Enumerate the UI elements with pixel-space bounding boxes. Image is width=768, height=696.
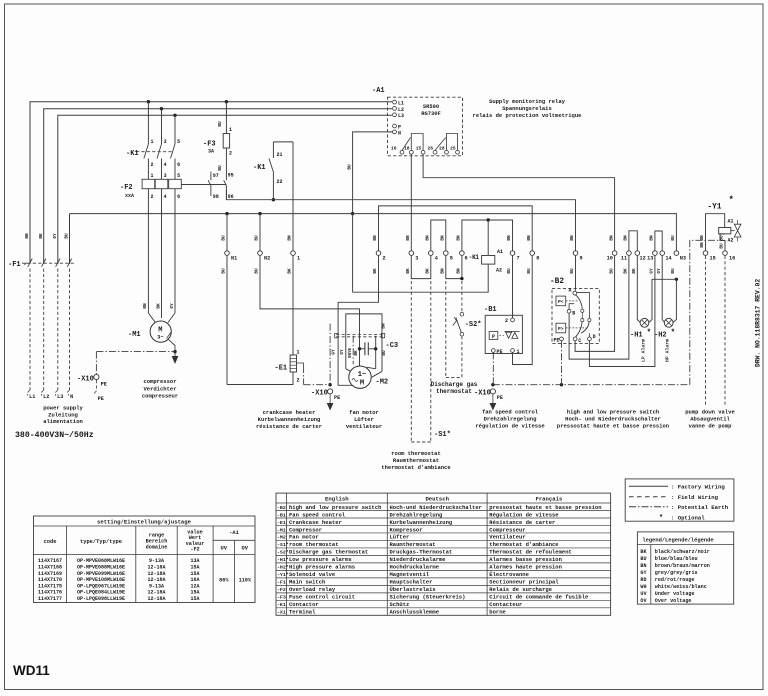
svg-text:3: 3 — [164, 173, 167, 179]
svg-text:compresseur: compresseur — [142, 393, 178, 400]
svg-text:2: 2 — [297, 378, 300, 384]
svg-text:N: N — [398, 130, 401, 136]
field wiring below F1 to supply terminals — [29, 269, 31, 391]
node M2 PE — [328, 383, 331, 386]
B2 terminal PE — [560, 337, 564, 341]
svg-text:Drehzahlregelung: Drehzahlregelung — [484, 416, 537, 423]
svg-text:BN: BN — [457, 235, 462, 241]
svg-text:OP-LPQE098LLW19E: OP-LPQE098LLW19E — [77, 596, 125, 602]
svg-text:thermostat d'ambiance: thermostat d'ambiance — [381, 464, 451, 471]
svg-text:110%: 110% — [239, 578, 252, 584]
svg-text:15A: 15A — [190, 596, 199, 602]
wire terminal1 riser to K1-21 — [292, 142, 294, 251]
terminal X1-10 — [612, 251, 617, 256]
svg-text:BN: BN — [25, 233, 30, 239]
svg-text:-X10: -X10 — [474, 390, 491, 398]
svg-text:PE: PE — [334, 395, 340, 401]
svg-text:Hochdruckalarme: Hochdruckalarme — [390, 564, 440, 571]
A1 input N — [393, 130, 397, 134]
node B2 PE — [560, 383, 563, 386]
terminal X1-16 — [723, 251, 728, 256]
svg-text:BU: BU — [671, 268, 676, 274]
svg-text:-F2: -F2 — [120, 184, 133, 192]
svg-text:thermostat: thermostat — [436, 388, 472, 395]
B2 internal contacts — [575, 295, 582, 309]
B1 pressure sensor box — [489, 331, 498, 339]
wire A1-18 to terminal 3 — [410, 154, 412, 250]
node A1-N neutral bus — [351, 212, 354, 215]
jumper bridge terminals 11-12 — [629, 231, 637, 251]
svg-text:-F2: -F2 — [277, 587, 286, 593]
HP alarm lamp H2 — [664, 318, 673, 327]
svg-text:114X7177: 114X7177 — [38, 596, 62, 602]
svg-text:black/schwarz/noir: black/schwarz/noir — [655, 549, 710, 555]
svg-text:BN: BN — [700, 235, 705, 241]
svg-text:98: 98 — [213, 194, 219, 200]
wire E1 PE stub — [297, 363, 304, 366]
svg-text:BK: BK — [288, 268, 293, 274]
svg-text:BU: BU — [218, 121, 223, 127]
svg-text:Français: Français — [535, 496, 562, 503]
svg-text:GY: GY — [53, 233, 58, 239]
svg-text:1: 1 — [151, 173, 154, 179]
wire N drop to F1 — [69, 214, 71, 264]
svg-text:'L1: 'L1 — [26, 394, 35, 400]
jumper bridge terminals 13-14 — [655, 231, 662, 251]
svg-text:BU: BU — [609, 268, 614, 274]
svg-text:BU: BU — [527, 268, 532, 274]
fan motor auxiliary winding loop — [346, 314, 382, 372]
svg-text:BN: BN — [570, 235, 575, 241]
svg-text:Under voltage: Under voltage — [655, 591, 695, 597]
terminal X1-8 — [530, 251, 535, 256]
capacitor C3 lead wire — [375, 336, 377, 369]
svg-text:PE: PE — [497, 395, 503, 401]
svg-text:12-18A: 12-18A — [147, 596, 165, 602]
wire link terminal 2 to terminal 8 — [379, 206, 533, 251]
svg-text:Magnetventil: Magnetventil — [390, 571, 430, 578]
node M1 PE — [173, 350, 176, 353]
pressure switch B2 box — [552, 289, 599, 344]
terminal X1-11 — [627, 251, 632, 256]
svg-text:BU: BU — [507, 268, 512, 274]
svg-text:-M1: -M1 — [277, 527, 286, 533]
svg-text:5: 5 — [177, 173, 180, 179]
svg-text:BN: BN — [441, 268, 446, 274]
svg-text:16A: 16A — [190, 577, 199, 583]
svg-text:BN: BN — [373, 235, 378, 241]
svg-text:Deutsch: Deutsch — [425, 496, 449, 503]
svg-text:-M1: -M1 — [128, 331, 141, 339]
svg-text:code: code — [44, 539, 57, 545]
fan speed control B1 box — [485, 315, 522, 353]
svg-text:high and low pressure switch: high and low pressure switch — [289, 504, 381, 511]
node neutral N2 — [258, 212, 261, 215]
wire F2 aux link — [181, 184, 226, 186]
svg-text:-A1: -A1 — [372, 87, 385, 95]
svg-text:114X7167: 114X7167 — [38, 558, 62, 564]
terminal X10 PE fan — [328, 389, 333, 394]
node S2 field tap — [460, 277, 463, 280]
svg-text:'N: 'N — [67, 394, 73, 400]
svg-text:-K1: -K1 — [126, 150, 139, 158]
svg-text:Fan speed control: Fan speed control — [289, 511, 346, 518]
svg-text:*: * — [671, 329, 676, 338]
svg-text:UV: UV — [221, 546, 228, 552]
svg-text:BN: BN — [143, 303, 148, 309]
svg-text:white/weiss/blanc: white/weiss/blanc — [655, 584, 707, 590]
svg-text:-S2*: -S2* — [277, 550, 289, 556]
svg-text:114X7176: 114X7176 — [38, 590, 62, 596]
terminal X1-14 — [660, 251, 665, 256]
svg-text:15A: 15A — [190, 564, 199, 570]
wire B2-D to terminal 13 (HP) — [589, 256, 655, 367]
svg-text:12-18A: 12-18A — [147, 577, 165, 583]
potential earth bus left — [96, 351, 175, 353]
terminal X1-6 — [460, 251, 465, 256]
svg-text:9: 9 — [580, 256, 583, 262]
svg-text:-M2: -M2 — [376, 379, 389, 387]
svg-text:-K1: -K1 — [469, 254, 480, 261]
svg-text:11: 11 — [621, 256, 627, 262]
terminal X1-15 — [703, 251, 708, 256]
terminal X1-13 — [653, 251, 658, 256]
svg-text:BU: BU — [65, 233, 70, 239]
svg-text:Raumthermostat: Raumthermostat — [390, 541, 436, 548]
jumper terminals 5-6 — [446, 256, 462, 279]
thermostat contact S2 — [460, 312, 464, 316]
B2 high pressure sensor P> — [556, 323, 566, 333]
capacitor C3 — [360, 348, 365, 350]
svg-text:A: A — [568, 288, 571, 294]
svg-text:-F3: -F3 — [203, 141, 216, 149]
svg-text:Kurbelwannenheizung: Kurbelwannenheizung — [390, 519, 453, 526]
node bus L2 / K1 tap — [160, 107, 163, 110]
svg-text:OP-LPQE084LLW19E: OP-LPQE084LLW19E — [77, 590, 125, 596]
wire terminal 14 to lamp H2 — [662, 256, 665, 323]
svg-text:Druckgas-Thermostat: Druckgas-Thermostat — [390, 549, 453, 556]
node K1 coil tap — [487, 218, 490, 221]
terminal X1-5 — [444, 251, 449, 256]
svg-text:BK: BK — [632, 268, 637, 274]
svg-text:-F2: -F2 — [190, 547, 199, 553]
field wiring below 15/16 — [705, 256, 707, 407]
svg-text:BN: BN — [457, 268, 462, 274]
svg-text:WD11: WD11 — [13, 663, 50, 678]
svg-text:GY: GY — [332, 349, 337, 355]
svg-text:A1: A1 — [497, 249, 503, 255]
svg-text:M: M — [158, 327, 162, 335]
node bus L3 / K1 tap — [173, 114, 176, 117]
setting table — [34, 516, 256, 603]
svg-text:Kurbelwannenheizung: Kurbelwannenheizung — [258, 416, 321, 423]
svg-text:room thermostat: room thermostat — [391, 450, 441, 457]
svg-text:-B2: -B2 — [277, 505, 286, 511]
svg-text:25: 25 — [450, 146, 456, 152]
svg-text:BN: BN — [426, 235, 431, 241]
svg-text:Sicherung (Steuerkreis): Sicherung (Steuerkreis) — [390, 594, 466, 601]
wire E1 return to N1 — [227, 372, 293, 385]
potential earth to Y1 — [690, 240, 720, 384]
solenoid valve coil Y1 — [719, 228, 731, 234]
wire B1-1 to terminal 8 — [513, 256, 533, 365]
svg-text:Drehzahlregelung: Drehzahlregelung — [390, 511, 443, 518]
svg-text:Over voltage: Over voltage — [655, 598, 692, 604]
A1 input P — [393, 124, 397, 128]
svg-text:9-13A: 9-13A — [149, 558, 164, 564]
svg-text:BK: BK — [426, 268, 431, 274]
svg-text:Discharge gas thermostat: Discharge gas thermostat — [289, 549, 368, 556]
svg-text:Solenoid valve: Solenoid valve — [289, 571, 336, 578]
svg-text:High pressure alarms: High pressure alarms — [289, 564, 355, 571]
svg-text:Électrovanne: Électrovanne — [489, 571, 529, 578]
wire neutral BU drop to K1 coil return — [352, 214, 354, 293]
wire A1-N to neutral bus — [353, 132, 393, 214]
svg-text:brown/braun/marron: brown/braun/marron — [655, 563, 710, 569]
terminal X1-3 — [409, 251, 414, 256]
svg-text:4: 4 — [164, 194, 167, 200]
svg-text:room thermostat: room thermostat — [289, 541, 339, 548]
svg-text:2: 2 — [151, 194, 154, 200]
contact F2 97/98 — [210, 172, 212, 181]
terminal X1-N2 — [258, 251, 263, 256]
svg-text:fan speed control: fan speed control — [482, 409, 539, 416]
svg-text:OP-MPVE068MLW16E: OP-MPVE068MLW16E — [77, 558, 125, 564]
svg-text:'L3: 'L3 — [54, 394, 63, 400]
svg-text:Spannungsrelais: Spannungsrelais — [502, 105, 552, 112]
svg-text:OP-MPVE088MLW16E: OP-MPVE088MLW16E — [77, 564, 125, 570]
svg-text:BN: BN — [441, 235, 446, 241]
svg-text:-S1*: -S1* — [434, 431, 451, 439]
svg-text:BN: BN — [609, 235, 614, 241]
svg-text:L2: L2 — [398, 107, 404, 113]
node K1-22 on 96 line — [272, 198, 275, 201]
room thermostat S1 field wiring — [410, 281, 412, 442]
svg-text:-E1: -E1 — [277, 520, 286, 526]
wire terminal 15 riser — [706, 214, 725, 251]
svg-text:OP-MPVE108MLW16E: OP-MPVE108MLW16E — [77, 577, 125, 583]
wire terminal 12 to lamp H1 — [637, 256, 640, 323]
svg-text:Régulation de vitesse: Régulation de vitesse — [489, 511, 559, 518]
svg-text:compressor: compressor — [143, 378, 176, 385]
svg-text:9-13A: 9-13A — [149, 583, 164, 589]
svg-text:: Optional: : Optional — [671, 514, 705, 521]
svg-text:5: 5 — [177, 139, 180, 145]
svg-text:15: 15 — [710, 256, 716, 262]
svg-text:Terminal: Terminal — [289, 609, 316, 616]
svg-text:Anschlussklemme: Anschlussklemme — [390, 609, 440, 616]
svg-text:14: 14 — [665, 256, 671, 262]
svg-text:BN: BN — [624, 235, 629, 241]
svg-text:12-18A: 12-18A — [147, 590, 165, 596]
svg-text:*: * — [659, 514, 663, 522]
svg-text:13: 13 — [647, 256, 653, 262]
svg-text:BU: BU — [640, 556, 646, 562]
svg-text:4: 4 — [164, 162, 167, 168]
B2 terminal C — [573, 337, 577, 341]
svg-text:alimentation: alimentation — [43, 418, 83, 425]
svg-text:-H1*: -H1* — [277, 557, 289, 563]
svg-text:12A: 12A — [190, 583, 199, 589]
svg-text:BK: BK — [39, 233, 44, 239]
svg-text:OP-LPQE067LLW19E: OP-LPQE067LLW19E — [77, 583, 125, 589]
svg-text:GY: GY — [650, 268, 655, 274]
svg-text:BN: BN — [382, 323, 387, 329]
svg-text:-K1: -K1 — [253, 164, 266, 172]
contactor coil K1 — [487, 220, 489, 256]
wire A1-15 to terminal 10 — [423, 154, 614, 250]
svg-text:PE: PE — [553, 338, 559, 344]
svg-text:6: 6 — [465, 256, 468, 262]
svg-text:96: 96 — [228, 194, 234, 200]
A1 input L2 — [393, 107, 397, 111]
svg-text:blue/blau/bleu: blue/blau/bleu — [655, 556, 698, 562]
A1 relay contact 16-18-15 — [400, 150, 404, 154]
svg-text:-B1: -B1 — [484, 306, 497, 314]
svg-text:BK: BK — [624, 268, 629, 274]
valve symbol — [731, 230, 735, 232]
svg-text:Crankcase heater: Crankcase heater — [289, 519, 342, 526]
svg-text:BN: BN — [406, 235, 411, 241]
wire B1 PE drop — [492, 352, 494, 384]
node bus L1 / K1 tap — [147, 100, 150, 103]
svg-text:relais de protection voltmetri: relais de protection voltmetrique — [473, 112, 583, 119]
B1 terminal 2 — [511, 318, 515, 322]
wire sub-bus terminals 6-7 with K1 coil tap — [462, 220, 513, 251]
svg-text:'L2: 'L2 — [40, 394, 49, 400]
jumper terminals 3-4 — [411, 256, 431, 279]
svg-text:Alarmes haute pression: Alarmes haute pression — [489, 564, 562, 571]
svg-text:Absaugventil: Absaugventil — [690, 416, 730, 423]
svg-text:Verdichter: Verdichter — [143, 385, 176, 392]
svg-text:BK: BK — [640, 549, 647, 555]
node N3 jog — [675, 278, 678, 281]
svg-text:domaine: domaine — [146, 545, 168, 551]
svg-text:P: P — [492, 334, 495, 340]
terminal X1-N3 — [674, 251, 679, 256]
svg-text:86%: 86% — [219, 578, 229, 584]
potential earth bus fan segment — [304, 384, 331, 386]
svg-text:GY: GY — [640, 570, 647, 576]
svg-text:Fuse control circuit: Fuse control circuit — [289, 594, 355, 601]
svg-text:RD: RD — [640, 577, 646, 583]
terminal X1-12 — [635, 251, 640, 256]
fan motor M2 — [349, 366, 371, 388]
svg-text:1: 1 — [229, 127, 232, 133]
svg-text:grey/grey/gris: grey/grey/gris — [655, 570, 698, 576]
B2 terminal D — [588, 337, 592, 341]
colour legend box — [637, 532, 733, 604]
svg-text:fan motor: fan motor — [349, 409, 379, 416]
svg-text:Compressor: Compressor — [289, 526, 322, 533]
terminal X1-7 — [510, 251, 515, 256]
terminal X10 PE left — [95, 352, 97, 374]
svg-text:97: 97 — [213, 173, 219, 179]
svg-text:12-18A: 12-18A — [147, 571, 165, 577]
svg-text:26: 26 — [427, 146, 433, 152]
svg-text:pressostat haute et basse pres: pressostat haute et basse pression — [489, 504, 601, 511]
crankcase heater E1 — [290, 355, 296, 372]
svg-text:Main switch: Main switch — [289, 579, 325, 586]
svg-text:-H2: -H2 — [654, 332, 667, 340]
svg-text:BN: BN — [527, 235, 532, 241]
B2 terminal A — [573, 291, 577, 295]
svg-text:N1: N1 — [231, 256, 237, 262]
terminal X1-1 — [291, 251, 296, 256]
compressor motor M1 — [150, 321, 171, 342]
svg-text:3A: 3A — [208, 149, 214, 155]
B1 triac symbol — [499, 334, 504, 336]
wire N3 to lamp H2 — [673, 279, 677, 323]
svg-text:Hoch- und Niederdruckschalter: Hoch- und Niederdruckschalter — [565, 416, 661, 423]
svg-text:Raumthermostat: Raumthermostat — [393, 457, 439, 464]
node B1 PE — [491, 383, 494, 386]
svg-text:A1: A1 — [728, 218, 734, 224]
svg-text:114X7175: 114X7175 — [38, 583, 62, 589]
B1 terminal PE — [491, 349, 495, 353]
potential earth M2 drop — [329, 324, 331, 385]
svg-text:: Field Wiring: : Field Wiring — [671, 494, 719, 501]
svg-text:21: 21 — [277, 152, 283, 158]
node neutral N1 — [225, 212, 228, 215]
svg-text:OV: OV — [640, 598, 647, 604]
svg-text:15A: 15A — [190, 571, 199, 577]
svg-text:GY: GY — [657, 268, 662, 274]
wire neutral bus — [70, 214, 677, 251]
wire B2 B throw stub — [569, 304, 574, 310]
svg-text:6: 6 — [177, 194, 180, 200]
svg-text:BN: BN — [507, 235, 512, 241]
B2 low pressure sensor P< — [556, 296, 566, 306]
svg-text:A2: A2 — [496, 268, 502, 274]
jumper bridge terminals 4-5 — [431, 220, 446, 251]
wiring legend box — [625, 479, 734, 521]
A1 relay contact 26-28-25 — [433, 150, 437, 154]
svg-text:-H1: -H1 — [630, 332, 643, 340]
svg-text:vanne de pomp: vanne de pomp — [689, 423, 733, 430]
wire B2-C to terminal 10 — [575, 256, 615, 352]
wire lamp H1 to N3 — [648, 279, 676, 323]
wire N2 above — [259, 214, 261, 251]
svg-text:pressostat haute et basse pres: pressostat haute et basse pression — [557, 423, 669, 430]
wire terminal 9 to B2-A — [575, 256, 577, 291]
svg-text:English: English — [325, 496, 349, 503]
svg-text:3~: 3~ — [157, 335, 163, 341]
svg-text:Lüfter: Lüfter — [354, 416, 374, 423]
svg-text:red/rot/rouge: red/rot/rouge — [655, 577, 695, 583]
svg-text:Thermostat de refoulement: Thermostat de refoulement — [489, 549, 572, 556]
fan motor speed-link dashed row — [336, 334, 383, 336]
svg-text:1: 1 — [151, 139, 154, 145]
svg-text:-Y1: -Y1 — [708, 204, 722, 212]
svg-text:12: 12 — [640, 256, 646, 262]
svg-text:: Factory Wiring: : Factory Wiring — [671, 484, 725, 491]
svg-text:setting/Einstellung/ajustage: setting/Einstellung/ajustage — [97, 519, 192, 526]
svg-text:2: 2 — [229, 151, 232, 157]
svg-text:-A1: -A1 — [229, 530, 239, 536]
svg-text:-F3: -F3 — [277, 595, 286, 601]
svg-text:BU: BU — [222, 268, 227, 274]
svg-text:BU: BU — [570, 268, 575, 274]
svg-text:8: 8 — [536, 256, 539, 262]
svg-text:28: 28 — [439, 146, 445, 152]
svg-text:: Potential Earth: : Potential Earth — [671, 504, 729, 511]
svg-text:BN: BN — [640, 563, 646, 569]
svg-text:GY: GY — [340, 349, 345, 355]
svg-text:2: 2 — [505, 318, 508, 324]
wires K1/F2 to compressor M1 — [147, 189, 149, 313]
wire L1 bus — [30, 102, 392, 264]
